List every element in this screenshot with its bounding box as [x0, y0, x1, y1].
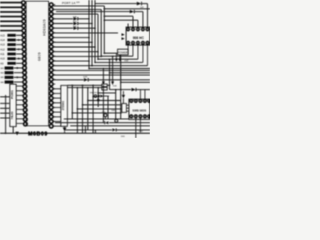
svg-text:A12: A12	[0, 48, 5, 51]
IC1 pin L13	[22, 57, 26, 61]
wire h92	[98, 92, 116, 94]
wire to IC2 pin3	[104, 19, 138, 21]
IC1 pin R8	[49, 36, 53, 40]
svg-text:PORT 1A: PORT 1A	[62, 1, 75, 5]
IC1 pin L10	[22, 43, 26, 47]
IC1 pin L8	[22, 33, 26, 37]
IC1 pin R26	[49, 120, 53, 124]
wire bottom bus	[0, 132, 150, 134]
IC2 bottom pin drops	[127, 44, 129, 53]
IC2 pin B2	[132, 41, 135, 44]
svg-text:D48: D48	[111, 110, 114, 112]
IC1 pin L22	[23, 99, 27, 103]
test point TP8	[94, 95, 97, 98]
wire to diode D40	[53, 18, 73, 20]
IC1 pin L4	[22, 15, 26, 19]
wire bus row	[53, 37, 89, 39]
wire h100	[88, 100, 121, 102]
svg-text:A10: A10	[0, 58, 5, 61]
IC2 pin B1	[127, 41, 130, 44]
arrow down v112	[111, 81, 114, 85]
wire U3 tick 6	[53, 111, 61, 113]
wire pin2 to bus	[53, 8, 101, 10]
wire stub R20	[53, 92, 55, 94]
wire stub R19	[53, 88, 55, 90]
wire to IC2 pin2	[104, 15, 133, 17]
IC1 pin R12	[49, 54, 53, 58]
wire row 4	[0, 16, 22, 18]
IC1 pin R3	[49, 12, 53, 16]
diode D42	[74, 27, 78, 30]
wire row 6	[0, 25, 22, 27]
wire h68	[89, 68, 150, 70]
IC1 pin L26	[23, 118, 27, 122]
wire U3 tick 1	[53, 88, 61, 90]
IC3 pin B2	[134, 115, 137, 118]
EPROM U3 box 27256	[61, 85, 68, 126]
wire L4 left	[64, 129, 112, 131]
wire stub R27	[53, 125, 55, 127]
IC1 pin L19	[23, 85, 27, 89]
IC1 pin R9	[49, 40, 53, 44]
IC1 pin R23	[49, 106, 53, 110]
wire stub R21	[53, 97, 55, 99]
svg-text:A15: A15	[0, 34, 5, 37]
svg-text:A9: A9	[0, 62, 4, 65]
wire CN2 tick 1	[16, 85, 23, 87]
IC2 pin B4	[141, 41, 144, 44]
wire L2 right	[109, 122, 150, 124]
svg-text:D49: D49	[140, 7, 143, 9]
test point TP7	[97, 99, 99, 101]
wire stub R4	[53, 18, 55, 20]
svg-text:TP9: TP9	[102, 112, 105, 114]
wire to IC2 pin5	[147, 4, 149, 28]
IC1 pin L2	[22, 5, 26, 9]
svg-text:6809: 6809	[37, 52, 41, 61]
IC3 pin T4	[143, 99, 146, 102]
svg-text:D61: D61	[121, 136, 126, 138]
wire h65	[53, 65, 148, 67]
wire L3	[70, 125, 150, 127]
wire v112	[112, 56, 114, 81]
IC1 pin R27	[49, 124, 53, 128]
IC2 pin T5	[146, 28, 149, 31]
IC3 pin T5	[148, 99, 151, 102]
arrow down v103	[102, 81, 105, 85]
wire row 5	[0, 20, 22, 22]
IC1 pin R24	[49, 110, 53, 114]
op-amp U1 body: CPU HD63A09	[26, 1, 48, 126]
wire h62	[95, 61, 143, 63]
wire U3 tick 2	[53, 92, 61, 94]
IC1 pin R18	[49, 82, 53, 86]
IC1 pin R22	[49, 101, 53, 105]
wire CN2 tick 8	[16, 118, 23, 120]
wire h79 left	[53, 79, 84, 81]
IC1 pin R5	[49, 22, 53, 26]
svg-text:79L05: 79L05	[10, 111, 14, 119]
wire stub R15	[53, 69, 55, 71]
IC1 pin R10	[49, 45, 53, 49]
IC1 pin R21	[49, 96, 53, 100]
IC1 pin L14	[23, 61, 27, 65]
svg-text:HD63A09: HD63A09	[42, 19, 46, 35]
diode D38	[137, 2, 141, 6]
wire bus row	[53, 51, 98, 53]
wire U3 tick 8	[53, 120, 61, 122]
wire stub R14	[53, 64, 55, 66]
wire row 32.9	[53, 32, 118, 34]
IC1 pin L23	[23, 103, 27, 107]
wire v98	[97, 88, 99, 107]
wire row 1	[0, 2, 22, 4]
wire v115	[115, 90, 117, 119]
wire bus v6	[103, 6, 105, 53]
wire U3 tick 9	[53, 125, 61, 127]
svg-text:M6B09: M6B09	[28, 131, 48, 137]
IC3 pin T1	[130, 99, 133, 102]
IC1 pin R19	[49, 87, 53, 91]
wire stub R17	[53, 78, 55, 80]
wire bus v1	[88, 0, 90, 69]
svg-text:345: 345	[0, 77, 4, 79]
wire to IC2 pin4	[142, 12, 144, 28]
wire U3 tick 7	[53, 116, 61, 118]
wire to diode D41	[53, 23, 73, 25]
diode D39	[56, 11, 130, 13]
svg-text:PC901: PC901	[10, 90, 14, 99]
wire stub R13	[53, 60, 55, 62]
IC1 pin L9	[22, 38, 26, 42]
wire CN2 tick 6	[16, 108, 23, 110]
wire stub R9	[53, 41, 55, 43]
wire h82	[121, 81, 150, 83]
wire bus v5	[100, 9, 102, 56]
wire v82	[82, 85, 84, 133]
IC3 pin B5	[148, 115, 151, 118]
svg-text:POWER: POWER	[118, 51, 128, 55]
wire h89 with diode D50	[110, 89, 132, 91]
wire L4 right	[117, 129, 151, 131]
IC1 pin L15	[23, 66, 27, 70]
IC3 top stubs	[139, 90, 141, 100]
svg-text:A14: A14	[0, 39, 5, 42]
IC1 pin L18	[23, 80, 27, 84]
wire bus row	[53, 60, 89, 62]
wire stub R3	[53, 13, 55, 15]
IC1 pin R2	[49, 8, 53, 12]
wire stub R1	[53, 4, 55, 6]
wire stub R2	[53, 8, 55, 10]
IC1 pin R13	[49, 59, 53, 63]
IC3 bottom stubs	[135, 118, 137, 138]
diode D50	[132, 88, 136, 91]
diode D40	[74, 17, 78, 20]
wire vertical left rail	[5, 95, 7, 133]
svg-text:TP8 TP7: TP8 TP7	[90, 93, 99, 95]
diode D60	[112, 128, 116, 131]
arrow down b	[119, 58, 122, 61]
wire CN2 tick 5	[16, 104, 23, 106]
IC2 body 966HC	[126, 27, 150, 45]
IC1 pin R6	[49, 26, 53, 30]
IC1 pin L24	[23, 108, 27, 112]
wire stub R11	[53, 50, 55, 52]
IC1 pin R16	[49, 73, 53, 77]
IC2 pin T4	[141, 28, 144, 31]
IC2 pin T3	[136, 28, 139, 31]
wire pin3 to bus	[53, 13, 98, 15]
wire power drop a	[119, 55, 121, 59]
test point TP9	[104, 114, 107, 117]
wire h72	[110, 72, 151, 74]
IC1 pin L27	[24, 122, 28, 126]
IC1 pin R25	[49, 115, 53, 119]
IC3 pin T2	[134, 99, 137, 102]
IC1 pin L3	[22, 10, 26, 14]
IC2 pin T2	[132, 28, 135, 31]
IC1 pin L17	[23, 75, 27, 79]
wire v93	[92, 85, 94, 133]
component RA1	[122, 104, 127, 113]
wire lv108	[107, 96, 109, 119]
wire stub R25	[53, 116, 55, 118]
arrow into IC2 a	[122, 33, 125, 36]
wire CN2 tick 3	[16, 94, 23, 96]
wire CN2 tick 9	[16, 122, 23, 124]
wire h53	[104, 52, 117, 54]
IC2 pin B5	[146, 41, 149, 44]
wire L1	[64, 118, 129, 120]
svg-text:SMB MOS: SMB MOS	[132, 108, 146, 112]
wire stub R8	[53, 36, 55, 38]
IC2 pin B3	[136, 41, 139, 44]
wire v103	[102, 69, 104, 82]
wires from left edge into CN2	[0, 96, 10, 98]
IC1 pin R7	[49, 31, 53, 35]
svg-text:343: 343	[0, 68, 4, 70]
wire h108	[77, 108, 121, 110]
wire stub R7	[53, 32, 55, 34]
IC1 pin L7	[22, 29, 26, 33]
wire stub R24	[53, 111, 55, 113]
wire lv85	[84, 126, 86, 133]
svg-text:A11: A11	[0, 53, 5, 56]
IC2 pin T1	[127, 28, 130, 31]
wire v72	[71, 85, 73, 119]
svg-text:27256C: 27256C	[61, 101, 65, 110]
wire stub R22	[53, 102, 55, 104]
IC1 pin L5	[22, 19, 26, 23]
IC1 pin L21	[23, 94, 27, 98]
svg-text:346: 346	[0, 82, 4, 84]
wire CN2 tick 7	[16, 113, 23, 115]
IC1 pin L12	[22, 52, 26, 56]
arrow into IC2 b	[122, 37, 125, 40]
wire stub R6	[53, 27, 55, 29]
wire h56	[101, 55, 133, 57]
wire h8 to edge	[104, 8, 150, 10]
IC1 pin R4	[49, 17, 53, 21]
POWER box	[118, 49, 129, 55]
ground	[15, 132, 19, 136]
wire v109	[109, 59, 111, 89]
wire L2 left	[55, 122, 105, 124]
IC1 pin L6	[22, 24, 26, 28]
wire h85	[67, 84, 101, 86]
wire stub R16	[53, 74, 55, 76]
wire stub R10	[53, 46, 55, 48]
wire h104	[83, 104, 122, 106]
wire h79 right	[88, 79, 150, 81]
svg-text:D39: D39	[76, 2, 79, 4]
IC3 body SMB MOS	[129, 99, 150, 119]
wire v87	[87, 88, 89, 130]
wire h112	[72, 112, 122, 114]
wire CN2 bottom drop	[12, 127, 14, 134]
wire v120	[120, 55, 122, 119]
wire h70	[53, 69, 150, 71]
IC1 pin R11	[49, 50, 53, 54]
test point TP10	[115, 119, 118, 122]
wire bus v2	[91, 0, 93, 66]
wire IC2 pin1 stub	[127, 24, 129, 28]
wire stub R5	[53, 22, 55, 24]
diode D38 top-right	[95, 3, 137, 5]
IC1 pin R1	[49, 3, 53, 7]
svg-text:D44: D44	[113, 86, 118, 88]
svg-text:966 HC: 966 HC	[133, 36, 145, 40]
IC1 pin L1	[22, 1, 26, 5]
IC1 pin L11	[22, 47, 26, 51]
wire CN2 tick 2	[16, 90, 23, 92]
wire lv95	[94, 130, 96, 133]
wire bus v4	[97, 14, 99, 59]
svg-text:D62: D62	[139, 131, 144, 133]
wire bus row	[53, 55, 101, 57]
IC1 pin R20	[49, 92, 53, 96]
wire stub R12	[53, 55, 55, 57]
svg-text:344: 344	[0, 73, 4, 75]
wire bus v3	[94, 0, 96, 62]
IC1 pin R14	[49, 64, 53, 68]
svg-text:+5V: +5V	[124, 61, 129, 63]
svg-text:A13: A13	[0, 44, 5, 47]
IC3 pin B1	[130, 115, 133, 118]
diode D43	[84, 78, 88, 81]
wire h87	[67, 87, 101, 89]
wire bus row	[53, 41, 92, 43]
wire power drop b	[115, 53, 117, 58]
wire to diode D42	[53, 27, 73, 29]
wire h59	[98, 58, 138, 60]
wire row 7	[0, 30, 22, 32]
wire v103 lower	[102, 85, 104, 123]
wire U3 tick 4	[53, 102, 61, 104]
wire stub R26	[53, 120, 55, 122]
diode D41	[74, 22, 78, 25]
IC3 pin B4	[143, 115, 146, 118]
wire U3 tick 3	[53, 97, 61, 99]
wire bus row	[53, 46, 95, 48]
IC1 pin R17	[49, 78, 53, 82]
wire v77	[76, 88, 78, 134]
IC3 pin B3	[139, 115, 142, 118]
diode D49 down	[122, 95, 125, 98]
arrow down a	[115, 58, 118, 61]
IC1 pin R15	[49, 68, 53, 72]
diode D39	[130, 10, 134, 13]
wire row 2	[0, 6, 22, 8]
wire row 3	[0, 11, 22, 13]
resistor R11	[102, 87, 107, 90]
IC1 pin L25	[23, 113, 27, 117]
wire stub R18	[53, 83, 55, 85]
wire h96	[93, 96, 99, 98]
wire CN2 tick 4	[16, 99, 23, 101]
IC3 pin T3	[139, 99, 142, 102]
IC1 pin L20	[23, 89, 27, 93]
connector CN2 box	[10, 84, 16, 126]
resistor R10	[102, 84, 107, 87]
wire U3 tick 5	[53, 106, 61, 108]
wire pin1 to bus	[53, 5, 104, 7]
wire stub R23	[53, 106, 55, 108]
ground under U3	[63, 128, 67, 132]
wire h75	[53, 74, 150, 76]
diode D47	[105, 121, 108, 124]
diode D45	[100, 95, 103, 98]
IC1 pin L16	[23, 71, 27, 75]
